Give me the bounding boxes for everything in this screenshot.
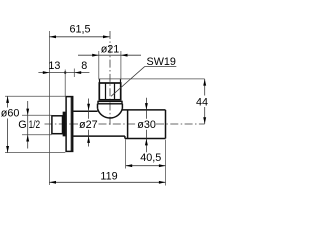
svg-text:40,5: 40,5: [140, 152, 161, 164]
svg-text:119: 119: [100, 171, 117, 183]
svg-text:44: 44: [196, 97, 208, 109]
outlet seam: [127, 110, 129, 139]
svg-text:8: 8: [81, 60, 87, 72]
svg-text:13: 13: [48, 60, 60, 72]
dimension ø60: [1, 96, 66, 152]
dimension ø30: [137, 98, 156, 153]
cap left edge: [99, 79, 101, 83]
extension line cap right: [120, 51, 122, 80]
svg-text:ø60: ø60: [1, 108, 20, 120]
dimension 44: [196, 79, 208, 124]
svg-text:1/2: 1/2: [29, 119, 40, 131]
svg-text:SW19: SW19: [147, 56, 176, 68]
svg-text:61,5: 61,5: [69, 24, 90, 36]
bell bottom arc: [98, 108, 123, 118]
dimension 40,5: [126, 140, 166, 186]
hex facet line right: [114, 84, 116, 100]
dimension ø27: [79, 99, 98, 147]
outlet top edge: [122, 109, 165, 111]
svg-text:G: G: [18, 119, 26, 131]
hex nut SW19 body: [99, 83, 120, 100]
bonnet collar: [98, 101, 122, 103]
dimension ø21: [78, 44, 141, 57]
hex facet line left: [105, 84, 107, 100]
outlet end face: [165, 110, 167, 139]
tick flange front face: [73, 69, 75, 78]
thread spigot G1/2: [52, 116, 63, 134]
outlet bottom edge: [125, 138, 166, 140]
svg-text:ø21: ø21: [101, 44, 120, 56]
extension line wall plane with dot: [64, 70, 66, 97]
dimension 61,5: [49, 24, 109, 39]
label SW19 with leader: [111, 56, 176, 96]
long extension line at pipe end: [48, 31, 50, 185]
flange inner edge line: [70, 97, 72, 151]
dimension 119: [49, 171, 165, 184]
extension line cap left: [98, 51, 100, 80]
svg-text:ø30: ø30: [137, 119, 156, 131]
vertical centerline: [109, 31, 111, 127]
bell right edge: [121, 104, 123, 109]
body tube top edge: [73, 110, 97, 112]
dimension G 1/2: [18, 101, 51, 149]
dimension 13 and 8 chain line: [38, 60, 89, 74]
44 reference line from cap top: [99, 78, 205, 80]
horizontal centerline: [45, 123, 205, 125]
svg-text:ø27: ø27: [79, 119, 98, 131]
wall flange rosette: [66, 97, 73, 152]
body tube bottom edge: [73, 135, 125, 137]
cap right edge: [120, 79, 122, 83]
outlet bottom step: [124, 136, 126, 138]
collar between thread and flange: [63, 112, 64, 135]
bell left edge: [97, 104, 99, 109]
